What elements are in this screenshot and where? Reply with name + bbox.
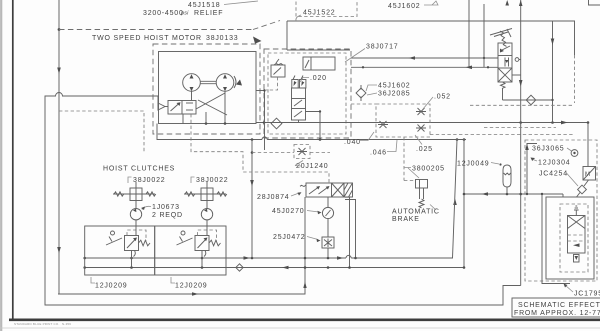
solenoid box hatched bbox=[344, 183, 353, 197]
hoist clutch 1 spring line bbox=[113, 193, 155, 195]
valve cell arrows bbox=[500, 46, 510, 51]
svg-text:45J1602: 45J1602 bbox=[388, 3, 420, 10]
schematic effectivity box bbox=[512, 298, 600, 317]
clutch supply vertical x252 bbox=[251, 140, 253, 259]
wire: accumulator line y194 bbox=[464, 193, 563, 195]
dashed link orifice box to right network bbox=[351, 103, 376, 105]
svg-text:36J3065: 36J3065 bbox=[532, 146, 564, 153]
svg-text:25J0472: 25J0472 bbox=[273, 234, 305, 241]
orifice 20J1240 dashed box bbox=[294, 145, 310, 159]
svg-text:45J1518: 45J1518 bbox=[188, 2, 220, 9]
dashed pilot lines right zone bbox=[470, 104, 574, 106]
flow arrow left on y67.3 bbox=[466, 66, 473, 70]
svg-text:AUTOMATIC: AUTOMATIC bbox=[392, 209, 440, 216]
pedal valve box 12J0209 no.1 bbox=[85, 226, 155, 275]
hydraulic motor 2 bbox=[216, 74, 234, 92]
svg-text:.020: .020 bbox=[310, 75, 327, 82]
flow arrow up on x305 line bbox=[303, 282, 306, 289]
svg-text:.046: .046 bbox=[370, 150, 387, 157]
wire: line below motor box y122.5 bbox=[256, 122, 588, 124]
pressure gauge 45J0270 bbox=[327, 197, 329, 208]
valve lever bbox=[490, 29, 512, 37]
wire: pump riser x527 bbox=[527, 144, 537, 195]
faint bottom line bbox=[0, 327, 600, 329]
svg-text:RELIEF: RELIEF bbox=[194, 10, 223, 17]
svg-text:.025: .025 bbox=[416, 146, 433, 153]
svg-text:45J1602: 45J1602 bbox=[378, 83, 410, 90]
motor2 port ticks bbox=[223, 74, 227, 78]
svg-text:12J0049: 12J0049 bbox=[457, 161, 489, 168]
valve 1 spring right bbox=[139, 240, 151, 246]
flow arrow left on y58 bbox=[409, 56, 416, 60]
wire: motor feed line y139.5 bbox=[157, 124, 262, 140]
flow arrow up at top x520.7 bbox=[519, 0, 523, 6]
svg-text:TWO SPEED HOIST MOTOR: TWO SPEED HOIST MOTOR bbox=[92, 35, 202, 42]
valve 1 stems bbox=[135, 226, 137, 236]
wire: counterbalance bottom bbox=[298, 120, 300, 123]
relief valve box 45J1522 top line bbox=[287, 20, 575, 22]
motor valve body bbox=[168, 101, 196, 115]
svg-text:12J0209: 12J0209 bbox=[175, 283, 207, 290]
wire: valve bottom to box bottom bbox=[182, 114, 184, 124]
wire: vertical x574 bbox=[574, 22, 576, 56]
flow arrow left y268 bbox=[282, 266, 289, 270]
filter dashed inner bbox=[560, 204, 588, 272]
valve 2 dashed pilot bbox=[198, 230, 217, 241]
dashed pilot S1 bbox=[59, 111, 144, 152]
automatic brake cylinder bbox=[416, 180, 428, 189]
relief valve block 45J1518 bbox=[303, 57, 335, 70]
valve 2 spring right bbox=[209, 240, 221, 246]
flow arrow up small x507 bbox=[505, 0, 510, 8]
clutch 1 stem and circle 1J0673 bbox=[135, 182, 137, 188]
svg-text:JC1795: JC1795 bbox=[574, 291, 600, 298]
flow arrow down on supply line bbox=[57, 68, 61, 75]
motor valve port lines bbox=[186, 102, 193, 104]
dashed box around 45J1522 label bbox=[296, 2, 357, 17]
sheet edge grey strip bbox=[0, 0, 2, 331]
svg-text:SCHEMATIC EFFECTIVI: SCHEMATIC EFFECTIVI bbox=[518, 302, 600, 309]
dashed leader from supply to two-speed label bbox=[59, 29, 253, 31]
open diamond on y268 bbox=[236, 264, 243, 271]
flow arrow right on y122.5 bbox=[561, 121, 568, 125]
flow arrows right on y258 bbox=[244, 256, 251, 260]
wire: return line corner left bbox=[45, 93, 521, 306]
pedal symbol 2 bbox=[177, 237, 193, 246]
wire: filter return left bbox=[542, 194, 570, 284]
svg-text:JC4254: JC4254 bbox=[539, 171, 568, 178]
orifice plate box dashed bbox=[376, 104, 430, 137]
svg-text:psi: psi bbox=[180, 11, 189, 17]
valve spring bbox=[500, 29, 511, 46]
svg-text:BRAKE: BRAKE bbox=[392, 216, 420, 223]
svg-text:FROM APPROX. 12-77: FROM APPROX. 12-77 bbox=[514, 310, 600, 317]
pedal valve box 12J0209 no.2 bbox=[155, 226, 226, 275]
accumulator 12J0049 bbox=[503, 165, 511, 187]
node dots y194 bbox=[463, 193, 466, 196]
wire: x563 inlet bbox=[562, 194, 564, 197]
filter assembly outer box bbox=[546, 197, 594, 279]
svg-text:38J0022: 38J0022 bbox=[196, 177, 228, 184]
svg-text:12J0209: 12J0209 bbox=[95, 283, 127, 290]
valve bottom port bbox=[501, 82, 506, 100]
wire: y140 stub to x464 bbox=[430, 139, 466, 141]
valve body 3 cells bbox=[498, 43, 512, 82]
motor box solid bbox=[159, 52, 257, 124]
clutch 1 box bbox=[130, 188, 142, 201]
filter element bbox=[568, 216, 586, 254]
wire: main supply vertical line left bbox=[58, 0, 60, 294]
dashed pilot to 20J1240 bbox=[252, 152, 294, 154]
reducing valve 1 bbox=[125, 236, 139, 251]
svg-text:1J0673: 1J0673 bbox=[152, 204, 180, 211]
svg-text:12J0304: 12J0304 bbox=[538, 160, 570, 167]
check valve diamond y100 bbox=[526, 95, 536, 105]
wire: valve drop elbows to buses bbox=[345, 197, 350, 267]
wire: crossing diagonals in motor box bbox=[196, 93, 225, 109]
svg-text:36J2085: 36J2085 bbox=[378, 91, 410, 98]
counterbalance valve body bbox=[292, 88, 306, 120]
check valve JC4254 bbox=[584, 180, 589, 186]
orifice X top right bbox=[416, 108, 426, 115]
svg-text:2 REQD: 2 REQD bbox=[152, 212, 183, 219]
orifice X symbol 20J1240 bbox=[297, 148, 307, 155]
electric motor box 12J0304 bbox=[583, 167, 596, 181]
reducing valve 2 bbox=[195, 236, 209, 251]
hydraulic motor 1 bbox=[183, 74, 201, 92]
node dots x553 bbox=[551, 99, 553, 101]
valve bottom cell crossed bbox=[498, 68, 512, 82]
box bottom edge bbox=[287, 49, 350, 51]
shuttle diamond 45J1602 bbox=[356, 88, 366, 98]
bus line y268 bbox=[85, 267, 464, 269]
flow arrow up x455 bbox=[453, 199, 457, 206]
valve side port circle bbox=[515, 58, 519, 62]
motor circle 36J3065 bbox=[571, 150, 578, 157]
flow arrow left y194 bbox=[482, 192, 489, 196]
pedal symbol 1 bbox=[106, 237, 122, 246]
wire: line y67.3 bbox=[351, 66, 498, 68]
motor shaft double line bbox=[200, 80, 216, 82]
dashed pilot to brake bbox=[403, 137, 405, 181]
sheet border bar left bbox=[12, 0, 14, 320]
node dots y122.5 bbox=[263, 121, 266, 124]
wire: counterbalance right port bbox=[306, 112, 321, 140]
wire: vertical x464 bbox=[463, 140, 465, 268]
wire: vertical x520.7 full bbox=[520, 0, 522, 286]
wire: y100 with check bbox=[503, 99, 553, 101]
valve 2 stems bbox=[206, 226, 208, 236]
svg-text:N-356: N-356 bbox=[62, 322, 71, 326]
node dots on y139.5 bbox=[251, 138, 254, 141]
compensator ports .020 bbox=[292, 80, 298, 89]
node dot motor2 line bbox=[224, 122, 227, 125]
svg-text:3200-4500: 3200-4500 bbox=[143, 10, 184, 17]
wire: drain vertical x264.5 bbox=[264, 91, 266, 151]
svg-text:38J0133: 38J0133 bbox=[206, 35, 238, 42]
svg-text:28J0874: 28J0874 bbox=[257, 194, 289, 201]
valve right port to x520.7 bbox=[512, 74, 521, 76]
brake spring bbox=[419, 199, 424, 208]
wire: supply from B to pilot valve y58 bbox=[351, 57, 498, 59]
relief block arrow bbox=[305, 60, 309, 68]
motor valve arrow inside bbox=[171, 103, 180, 111]
dashed pilot S2 bbox=[191, 114, 329, 183]
right side dashed enclosure power unit bbox=[525, 140, 597, 281]
dashed enclosure B inner bbox=[268, 53, 346, 134]
flow arrow right on y294 line bbox=[192, 292, 199, 295]
svg-text:.052: .052 bbox=[434, 94, 451, 101]
bus line y258 bbox=[85, 257, 346, 259]
flow arrow down x553 bbox=[551, 39, 555, 46]
wire: vertical x553 bbox=[552, 22, 554, 123]
svg-text:20J1240: 20J1240 bbox=[296, 163, 328, 170]
svg-text:HOIST CLUTCHES: HOIST CLUTCHES bbox=[103, 166, 175, 173]
wire: x588 to motor bbox=[587, 123, 589, 167]
clutch 2 box bbox=[201, 188, 213, 201]
svg-text:STANDARD BLUE PRINT CO.: STANDARD BLUE PRINT CO. bbox=[14, 322, 60, 326]
flow arrow down x252 bbox=[250, 180, 254, 187]
wire: bottom return with arrow y294 bbox=[58, 197, 305, 294]
orifice X bottom right bbox=[416, 125, 426, 132]
flow arrow down on supply line lower bbox=[57, 247, 61, 254]
check valve diamond on y122.5 bbox=[271, 118, 282, 129]
filter bypass box bbox=[574, 255, 580, 263]
relief block inner line bbox=[310, 57, 312, 70]
valve 1 dashed pilot bbox=[127, 230, 146, 241]
svg-text:.040: .040 bbox=[344, 139, 361, 146]
filter inlet stem bbox=[575, 210, 577, 216]
node: junction at dashed takeoff bbox=[58, 28, 61, 31]
node dots on buses bbox=[83, 257, 86, 260]
wire: motor1 to valve bbox=[191, 91, 193, 100]
sheet border bar bottom bbox=[9, 318, 600, 321]
dashed enclosure B outer : 38J0717 bbox=[264, 49, 351, 138]
wire: vertical x484 top bbox=[483, 4, 485, 67]
hoist clutch 2 spring line bbox=[184, 193, 226, 195]
wire: motor2 down to box bottom bbox=[224, 91, 226, 123]
top right corner box fragment bbox=[589, 0, 600, 5]
clutch 2 stem and circle bbox=[206, 182, 208, 188]
svg-text:45J0270: 45J0270 bbox=[272, 208, 304, 215]
case drain arrow right of motor2 bbox=[234, 76, 236, 88]
motor1 port ticks bbox=[190, 74, 194, 78]
svg-text:38J0022: 38J0022 bbox=[133, 177, 165, 184]
dashed enclosure A : two speed hoist motor 38J0133 bbox=[153, 44, 260, 134]
flow arrow down x520.7 bbox=[519, 80, 523, 87]
sight glass 25J0472 bbox=[327, 219, 329, 237]
pilot relief with spring in enclosure B bbox=[271, 65, 285, 77]
motor valve actuator triangle bbox=[158, 103, 165, 110]
svg-text:3800205: 3800205 bbox=[412, 166, 445, 173]
box left edge bbox=[286, 21, 288, 50]
node dot y67.3 bbox=[362, 66, 364, 68]
solenoid valve 28J0874 bbox=[300, 185, 306, 187]
dashed diagonal up to relief box bbox=[253, 21, 280, 30]
dashed pilot from relief bbox=[266, 77, 278, 90]
svg-text:45J1522: 45J1522 bbox=[303, 10, 335, 17]
svg-text:38J0717: 38J0717 bbox=[366, 44, 398, 51]
box right edge bbox=[468, 0, 470, 67]
orifice X bottom left bbox=[378, 121, 388, 128]
